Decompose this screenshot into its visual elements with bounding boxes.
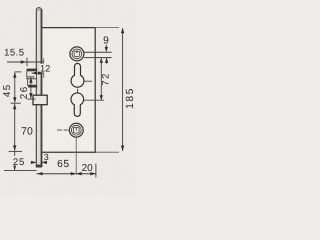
- 185 dim: [122, 28, 124, 151]
- faceplate: [36, 8, 41, 168]
- lower cylinder hole (neck down): [71, 93, 84, 116]
- follower hole (square spindle): [70, 47, 84, 61]
- bottom dim line 65 / 20: [37, 173, 96, 175]
- 25 dim: [9, 150, 22, 152]
- 70 dim: [11, 102, 21, 104]
- 12: [40, 64, 51, 73]
- 26 dim: [27, 76, 34, 78]
- tick between keyholes: [77, 89, 79, 94]
- faceplate bottom cap: [36, 165, 42, 168]
- deadbolt: [33, 95, 47, 105]
- 72 dim: [100, 58, 103, 63]
- case extension lines to 185 dim: [95, 28, 119, 153]
- bottom hole (square follower lower): [69, 123, 83, 137]
- upper cylinder hole (neck up): [71, 63, 84, 87]
- 45 dim: [15, 71, 22, 73]
- lock case outline: [41, 28, 95, 153]
- paper noise overlay: [0, 0, 1, 1]
- latch bolt: [27, 69, 38, 71]
- faceplate right edge (case front): [41, 9, 43, 167]
- ext line below bottom hole: [75, 137, 77, 173]
- follower tangent lines: [84, 52, 111, 57]
